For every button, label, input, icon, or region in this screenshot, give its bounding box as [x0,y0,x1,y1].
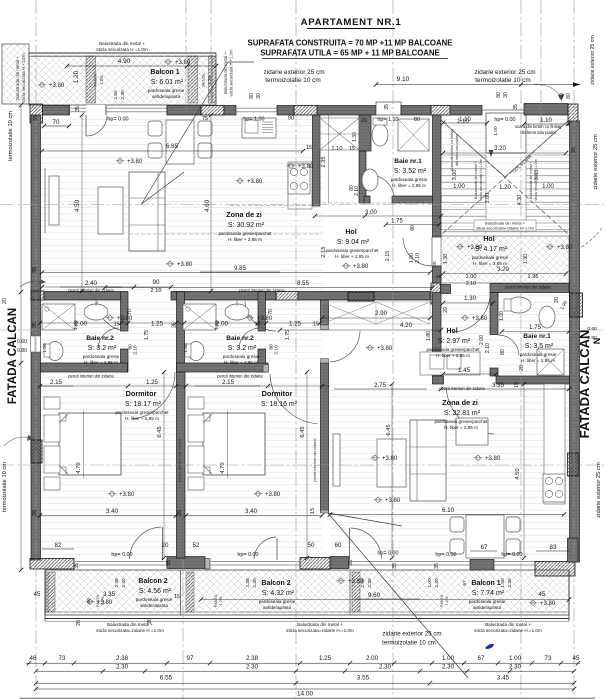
svg-text:1.00: 1.00 [453,184,465,190]
svg-text:15: 15 [174,594,180,600]
svg-text:2.30: 2.30 [434,578,440,588]
svg-text:antiderapanta: antiderapanta [263,605,292,610]
axis horizontal mid [0,329,40,331]
vert dim line living 4.50 [81,115,83,291]
svg-text:35: 35 [384,104,390,110]
vert dim line bed1 6.45 [163,372,165,558]
wardrobe niche double X (2.90) [322,302,430,324]
apt2 baie toilet [507,297,531,313]
svg-text:45: 45 [573,655,580,662]
svg-text:3.55: 3.55 [357,675,370,682]
svg-text:Balustrada din metal +: Balustrada din metal + [474,160,478,199]
svg-text:20: 20 [361,118,367,124]
svg-text:35: 35 [434,563,440,569]
svg-text:scara din beton cu finisaj: scara din beton cu finisaj [515,124,561,129]
door arc bedroom1 balcony [162,527,164,560]
svg-text:0.60: 0.60 [17,339,27,345]
svg-text:Dormitor: Dormitor [126,389,157,398]
svg-text:1.2%: 1.2% [207,75,212,85]
svg-text:1.00: 1.00 [509,655,522,662]
svg-text:2.10: 2.10 [415,253,421,263]
svg-text:2.30: 2.30 [246,664,259,671]
svg-text:45: 45 [34,591,41,598]
svg-text:15: 15 [310,508,316,514]
vert dim line living 4.60 [210,115,212,291]
svg-text:2.15: 2.15 [321,247,327,258]
wall baie1 apt1 left vertical [359,115,371,151]
svg-text:H. liber = 2,85 m: H. liber = 2,85 m [521,358,555,363]
tv unit apt2 [333,434,340,486]
floor texture apt2 hol/bath strip [441,292,569,376]
wall bathroom2 left vertical [177,292,185,373]
svg-text:sticla securizata H +1.0m: sticla securizata H +1.0m [229,49,234,96]
dim top balcony 4.90 [67,65,216,67]
vert dim line apt2 4.50 [523,384,525,558]
balcony divider 2 [349,570,351,615]
svg-text:pereti interiori din zidarie: pereti interiori din zidarie [505,285,551,290]
svg-text:H. liber = 2,85 m: H. liber = 2,85 m [224,360,258,365]
svg-text:90: 90 [288,116,294,122]
wall baie1 apt1 bottom [364,196,370,203]
svg-text:+3.80: +3.80 [382,456,398,462]
svg-text:hp= 1.10: hp= 1.10 [377,117,398,123]
svg-text:3.00: 3.00 [365,210,377,216]
svg-text:1.95: 1.95 [528,274,539,280]
svg-text:60: 60 [559,93,565,99]
svg-text:60: 60 [335,542,342,549]
svg-text:2.38: 2.38 [116,655,129,662]
svg-text:+3.80: +3.80 [377,346,393,352]
svg-text:1.30: 1.30 [352,132,358,142]
svg-text:2.90: 2.90 [375,310,388,317]
svg-text:H. liber = 2,85 m: H. liber = 2,85 m [84,360,118,365]
balcony bottom strip floor [45,570,569,615]
wall bottom: corner insulation left [30,559,74,570]
apt2 baie sink [539,306,555,328]
svg-text:6.55: 6.55 [160,675,173,682]
svg-text:1.75: 1.75 [285,330,291,340]
svg-text:35: 35 [32,510,38,516]
wall bedrooms top left (H2a) [41,363,128,372]
svg-text:termoizolatie 10 cm: termoizolatie 10 cm [2,462,8,512]
window living apt2 balcony 2 [494,561,535,563]
svg-text:6.45: 6.45 [157,426,163,437]
svg-text:2.30: 2.30 [442,664,455,671]
svg-text:1.30: 1.30 [443,254,449,264]
svg-text:+3.80: +3.80 [177,262,193,268]
svg-text:pereti interiori din zidarie: pereti interiori din zidarie [439,386,485,391]
chair apt2 1 [450,517,464,532]
kitchen sink apt2 top [420,352,480,375]
svg-text:+3.80: +3.80 [49,83,65,89]
leader arrow left wall low [4,437,30,446]
svg-text:sticla securizata+zidarie H+1.: sticla securizata+zidarie H+1.0m [476,226,534,231]
svg-text:2.15: 2.15 [222,379,235,386]
floor texture bedroom 2 [186,372,322,560]
wall top segment B [167,106,201,116]
svg-text:Baie nr.2: Baie nr.2 [226,335,254,342]
baie nr2 A door arc [98,328,118,348]
axis vertical B [185,0,187,110]
svg-text:S: 3.52 m²: S: 3.52 m² [394,168,427,175]
wall apt2 kitchen stub [490,368,498,376]
svg-text:1.60: 1.60 [214,320,220,330]
svg-text:Balcon 2: Balcon 2 [261,580,290,587]
balcony top Balcon 1 floor [29,53,216,105]
svg-text:Hol: Hol [345,229,356,236]
window top balcony door band [69,107,167,109]
wall apt2 bath top [490,284,569,293]
svg-text:6.45: 6.45 [300,426,306,437]
bed dormitor1 blanket fold marks [59,414,68,423]
insulation block top B [201,106,224,116]
dim line 3.40 bed2 [186,515,322,517]
leader line bottom note [328,513,468,678]
svg-text:Hol: Hol [446,328,457,335]
svg-text:2.10: 2.10 [354,186,360,196]
dim line 1.75 apt2 bath [502,331,569,333]
hol top edge dashes [322,202,432,204]
insulation block right wall mid [568,453,580,476]
svg-text:1.20: 1.20 [73,70,80,83]
svg-text:S: 18.17 m²: S: 18.17 m² [125,401,162,408]
chair 4 [198,143,212,158]
dim line 6.85 living [42,150,303,152]
svg-text:35: 35 [348,560,354,566]
wall apt2 hol top hatch [431,283,441,304]
svg-text:1.50: 1.50 [42,343,48,353]
svg-text:35: 35 [33,115,39,121]
floor texture stairs area [441,115,569,236]
svg-text:2.10: 2.10 [133,345,139,355]
svg-text:S: 3.2 m²: S: 3.2 m² [228,345,257,352]
svg-text:4.70: 4.70 [220,462,226,473]
dim line 8.55 [105,287,432,289]
svg-text:80: 80 [496,92,502,98]
svg-text:1.60: 1.60 [73,320,79,330]
svg-text:2.10: 2.10 [151,288,162,294]
svg-text:2.30: 2.30 [367,578,373,588]
svg-text:termoizolatie 10 cm: termoizolatie 10 cm [8,111,14,161]
bed dormitor1 nightstand bottom [44,477,60,490]
svg-text:pereti interiori din zidarie: pereti interiori din zidarie [312,437,317,481]
wall apt2 bath left vertical [490,293,498,335]
svg-text:2.30: 2.30 [120,90,126,100]
kitchen stove apt1 [288,164,310,194]
kitchen counter apt2 [544,384,565,504]
svg-text:1.75: 1.75 [144,330,150,340]
svg-text:2.35: 2.35 [321,157,327,168]
svg-text:Dormitor: Dormitor [262,389,293,398]
svg-text:Balustrada din metal +: Balustrada din metal + [485,622,531,627]
svg-text:hp= 0.00: hp= 0.00 [435,552,456,558]
svg-text:1.00: 1.00 [442,655,455,662]
svg-text:67: 67 [481,544,488,551]
svg-text:H. liber + 2,85 m: H. liber + 2,85 m [436,353,470,358]
svg-text:+3.80: +3.80 [127,159,143,165]
svg-text:2.30: 2.30 [121,578,127,588]
bed dormitor2 nightstand bottom [188,477,204,490]
svg-text:83: 83 [550,544,557,551]
baie nr2 B shower [183,304,216,330]
bed dormitor2 nightstand top [188,397,204,409]
svg-text:2.00: 2.00 [485,193,491,204]
svg-text:pereti interiori din zidarie: pereti interiori din zidarie [177,437,182,481]
window opening left wall [31,336,41,352]
svg-text:1.75: 1.75 [529,324,542,331]
svg-text:1.00: 1.00 [542,184,554,190]
wall bottom pier C [470,560,494,571]
chair 1 [148,121,162,136]
svg-text:pardoseala gresie: pardoseala gresie [520,352,557,357]
svg-text:S: 2.97 m²: S: 2.97 m² [438,338,471,345]
svg-text:Balustrada din metal +: Balustrada din metal + [297,622,343,627]
svg-text:73: 73 [545,655,552,662]
svg-text:6.10: 6.10 [442,507,455,514]
svg-text:zidarie exterior 25 cm: zidarie exterior 25 cm [596,462,602,518]
svg-text:15: 15 [349,146,355,152]
svg-text:FATADA CALCAN: FATADA CALCAN [577,330,592,439]
svg-text:1.30: 1.30 [464,295,477,302]
svg-text:1.75: 1.75 [391,219,403,225]
svg-text:pereti interiori din zidarie: pereti interiori din zidarie [68,374,114,379]
svg-text:hp= 0.00: hp= 0.00 [111,552,132,558]
bed dormitor1 pillow bottom [44,446,60,473]
wall corridor top segment 2 [171,292,276,301]
svg-text:+3.80: +3.80 [119,492,135,498]
svg-text:1.10: 1.10 [331,146,342,152]
svg-text:2.38: 2.38 [245,578,251,588]
svg-text:termoizolatie 10 cm: termoizolatie 10 cm [265,77,320,84]
svg-text:1.00: 1.00 [500,578,506,588]
svg-text:2.10: 2.10 [274,345,280,355]
door arc bedroom1 entry [132,372,175,419]
svg-text:pereti interiori din zidarie: pereti interiori din zidarie [68,288,114,293]
door arc apt2 from wardrobe [330,331,360,362]
svg-text:1.00: 1.00 [493,126,499,136]
svg-text:0.80: 0.80 [17,348,27,354]
panta strip bottom balcony 2 [186,572,194,612]
vert dim line apt2 6.45 [391,384,393,558]
svg-text:1.25: 1.25 [289,321,302,328]
svg-text:20: 20 [519,365,525,371]
svg-text:2.38: 2.38 [246,655,259,662]
svg-text:pardoseala gresie/parchet: pardoseala gresie/parchet [434,419,488,424]
kitchen counter apt1 [288,162,312,209]
door arc corridor apt1 [97,301,128,331]
axis vertical C [295,0,297,699]
wall apt2 hol top stub [441,285,451,294]
svg-text:2.00: 2.00 [360,578,366,588]
dim row 4 bottom [36,688,574,690]
svg-text:sticla securizata H=1.0m: sticla securizata H=1.0m [479,159,483,200]
svg-text:Baie nr.1: Baie nr.1 [394,158,422,165]
svg-text:2.75: 2.75 [374,382,387,389]
baie1 apt1 sink [362,169,378,191]
corner insulation top-right [568,104,578,125]
stair rail mid lines [485,155,487,233]
svg-text:1.00: 1.00 [499,311,505,321]
insulation block top F [431,106,450,116]
svg-text:S: 4.32 m²: S: 4.32 m² [262,590,295,597]
dining table apt2 [466,515,504,558]
svg-text:sticla securizata=zidarie H.=1: sticla securizata=zidarie H.=1.0m [286,628,354,633]
wall bathroom2 right vertical [258,292,266,332]
svg-text:35: 35 [32,267,38,273]
svg-text:45: 45 [539,591,546,598]
svg-text:50: 50 [308,542,315,549]
svg-text:Balcon 1: Balcon 1 [150,69,179,76]
window bedroom1 balcony [74,561,167,563]
svg-text:S: 4.56 m²: S: 4.56 m² [139,588,172,595]
svg-text:Baie nr.1: Baie nr.1 [523,333,551,340]
svg-text:S: 32.81 m²: S: 32.81 m² [444,410,481,417]
vert dim line bed1 4.70 [83,410,85,478]
wall top segment D [277,106,294,116]
svg-text:2.30: 2.30 [509,664,522,671]
leader polyline top note apt1 [142,62,255,204]
dim line 3.20 hol ext [443,273,566,275]
bed dormitor2 mattress [203,413,265,475]
svg-text:20: 20 [2,298,8,304]
insulation block left wall [31,440,42,463]
svg-text:pardoseala gresie: pardoseala gresie [472,255,509,260]
insulation block bottom right [535,562,575,577]
svg-text:9.10: 9.10 [397,76,410,83]
svg-text:20: 20 [147,618,153,624]
wall top segment E [317,106,376,116]
svg-text:+3.80: +3.80 [467,245,483,251]
axis horizontal bedrooms [0,464,606,466]
svg-text:25: 25 [432,261,438,267]
svg-text:zidarie exterior 25 cm: zidarie exterior 25 cm [590,35,596,85]
svg-text:pardoseala gresie/parchet: pardoseala gresie/parchet [426,347,480,352]
svg-text:sticla securizata H =1.0m: sticla securizata H =1.0m [96,47,148,52]
dim line bath strip [40,322,320,324]
svg-text:75: 75 [202,116,208,122]
dim line 6.10 apt2 [330,514,564,516]
svg-text:25: 25 [177,510,183,516]
svg-text:2.15: 2.15 [50,379,63,386]
wall corridor top (H1) hatch left [31,291,44,300]
svg-text:S: 30.92 m²: S: 30.92 m² [228,222,265,229]
wall top segment A [43,106,70,116]
svg-text:4.60: 4.60 [204,199,211,212]
svg-text:pardoseala gresie: pardoseala gresie [148,88,185,93]
wall left exterior [31,115,41,560]
leader lines living apt1 [142,172,185,204]
svg-text:3.35: 3.35 [492,382,505,389]
axis vertical D [392,0,394,699]
baie1 apt1 toilet [372,124,388,146]
svg-text:8.55: 8.55 [297,280,310,287]
neighbour wall strip top-left [2,44,29,104]
kitchen sink unit apt1 [242,118,276,138]
elevation marks [39,82,45,88]
svg-text:80: 80 [414,117,420,123]
door arc apt2 living-balcony [349,528,351,560]
panta strip bottom balcony 1 [46,572,55,612]
svg-text:sticla securizata H=1.0m: sticla securizata H=1.0m [534,159,538,200]
wall top segment C [224,106,236,116]
svg-text:35: 35 [513,104,519,110]
svg-text:97: 97 [187,655,194,662]
dim line 4.20 [280,329,441,331]
svg-text:FATADA CALCAN: FATADA CALCAN [7,308,19,404]
svg-text:+3.80: +3.80 [472,316,488,322]
leader arrow left wall [20,281,42,287]
insulation block corridor wall right [348,292,374,301]
svg-text:pereti interiori din zidarie: pereti interiori din zidarie [217,374,263,379]
panta strip top balcony left [86,56,96,103]
svg-text:+3.80: +3.80 [265,492,281,498]
chair apt2 4 [506,539,520,554]
tv unit apt1 [49,176,59,225]
svg-text:Zona de zi: Zona de zi [442,398,478,407]
svg-text:hp= 0.00: hp= 0.00 [377,551,398,557]
svg-text:1.00: 1.00 [466,274,477,280]
svg-text:1.50: 1.50 [183,343,189,353]
svg-text:+3.80: +3.80 [175,60,191,66]
svg-text:Balcon 1: Balcon 1 [471,580,500,587]
svg-text:hp= 0.00: hp= 0.00 [494,117,515,123]
svg-text:pardoseala gresie/parchet: pardoseala gresie/parchet [218,231,272,236]
svg-text:Zona de zi: Zona de zi [226,210,262,219]
svg-text:zidarie exterior 25 cm: zidarie exterior 25 cm [593,134,599,190]
svg-text:S: 3,5 m²: S: 3,5 m² [525,343,554,350]
svg-text:30: 30 [256,93,262,99]
wall top segment F [401,106,431,116]
insulation corridor wall [276,292,298,301]
svg-text:80: 80 [410,225,416,231]
chair 2 [148,143,162,158]
svg-text:4.20: 4.20 [400,322,413,329]
bed dormitor2 pillow bottom [188,446,204,473]
svg-text:sticla securizata=zidarie H =1: sticla securizata=zidarie H =1.0m [96,628,164,633]
svg-text:.25: .25 [435,274,442,280]
wall bottom pier A [167,557,205,569]
shaft recess top (35) [376,102,401,115]
exterior hol apt2 cross hatch [441,236,569,283]
svg-text:15: 15 [514,382,520,388]
bed dormitor1 mattress [59,413,121,475]
svg-text:15: 15 [313,322,319,328]
door arc apt2 living entry [446,388,494,435]
svg-text:H. liber = 2,85 m: H. liber = 2,85 m [392,183,426,188]
vert dim line bed2 4.70 [227,410,229,478]
dim line bedroom top row [40,385,330,387]
svg-text:6.85: 6.85 [166,143,179,150]
svg-text:PANTA: PANTA [201,73,206,87]
svg-text:pardoseala gresie: pardoseala gresie [136,597,173,602]
svg-text:pardoseala gresie/parchet: pardoseala gresie/parchet [325,248,379,253]
insulation block top D [294,106,317,116]
svg-text:SUPRAFATA CONSTRUITA = 70 MP +: SUPRAFATA CONSTRUITA = 70 MP +11 MP BALC… [248,39,453,48]
wall kitchen apt1 vertical [313,115,321,206]
svg-text:+3.80: +3.80 [298,164,314,170]
dim line 3.40 bed1 [40,515,176,517]
apt2 baie shower [537,349,564,375]
svg-text:1.10: 1.10 [457,119,469,125]
svg-text:80: 80 [249,93,255,99]
wall stub right of apt1 entry [433,266,442,283]
leader curve top note apt2 [534,84,561,99]
svg-text:+3.80: +3.80 [385,498,401,504]
svg-text:35: 35 [75,106,81,112]
svg-text:Balcon 2: Balcon 2 [138,578,167,585]
svg-text:70: 70 [127,309,133,315]
window kitchen top [236,107,277,109]
